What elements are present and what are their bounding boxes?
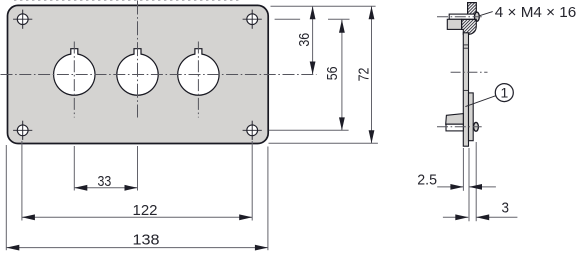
leader for screw label (479, 12, 493, 16)
extension line below right fixing holes (251, 141, 253, 221)
item balloon 1 leader (465, 96, 495, 107)
top screw centre line (437, 16, 482, 18)
dimension 36 line (310, 6, 316, 74)
svg-text:122: 122 (133, 202, 158, 219)
svg-text:72: 72 (355, 68, 372, 82)
vertical centre line hole 2 (137, 1, 139, 118)
dimension 72 line (369, 6, 375, 143)
joint lines on plate column (463, 44, 468, 46)
svg-text:3: 3 (502, 200, 510, 217)
top-left clamp block (447, 19, 461, 29)
top mounting bar (449, 14, 475, 19)
top screw end ellipse (475, 12, 480, 21)
svg-text:36: 36 (296, 33, 313, 47)
dimension 122 line (22, 214, 252, 220)
centre-line extension right of bottom-right fixing hole (269, 129, 349, 131)
bottom mounting bar (446, 124, 463, 131)
item balloon 1 (495, 84, 513, 102)
side view extension line C (boss rear) (475, 142, 477, 221)
top screw boss (sectioned) (462, 19, 477, 34)
operator hole 3 (with keyway notch) (178, 49, 219, 96)
side view extension line B (plate rear) (468, 148, 470, 221)
fixing hole bottom-left (13, 121, 32, 140)
svg-text:33: 33 (98, 173, 112, 190)
vertical centre line hole 1 (73, 42, 75, 118)
svg-text:1: 1 (501, 85, 509, 101)
extension line from plate top edge (271, 5, 376, 7)
horizontal centre line through operator holes (1, 74, 317, 76)
bottom screw end ellipse (474, 122, 479, 131)
svg-text:4 × M4 × 16: 4 × M4 × 16 (495, 5, 577, 21)
operator hole 1 (with keyway notch) (54, 49, 95, 96)
svg-text:2.5: 2.5 (417, 172, 437, 189)
mounting plate body (8, 5, 269, 143)
extension line below hole 1 (73, 146, 75, 191)
dimension 2.5 line (437, 184, 496, 190)
vertical centre line hole 3 (197, 42, 199, 118)
extension line from plate bottom edge (269, 142, 378, 144)
dimension 56 line (339, 20, 345, 131)
extension line below plate right edge (267, 147, 269, 251)
cropped dashed line at top edge (14, 0, 242, 1)
bottom clamp block (446, 114, 464, 125)
extension line below plate left edge (5, 145, 7, 250)
operator hole 2 (with keyway notch) (117, 49, 158, 96)
top M4 screw shank (sectioned) (468, 3, 477, 15)
fixing hole top-left (13, 10, 32, 29)
fixing hole bottom-right (243, 121, 262, 140)
svg-text:138: 138 (133, 231, 160, 248)
side view extension line A (plate front) (462, 148, 464, 191)
dimension 3 line (443, 214, 518, 220)
adapter column (edge view) (469, 93, 474, 141)
dimension 33 line (74, 185, 137, 191)
svg-text:56: 56 (324, 67, 341, 81)
bottom screw centre line (437, 126, 482, 128)
extension line below hole 2 (137, 146, 139, 191)
centre-line extension right of top-right fixing hole (275, 18, 301, 20)
dimension 138 line (6, 245, 268, 251)
middle centre line (451, 71, 488, 73)
front plate column (edge view) (463, 33, 468, 146)
extension line below left fixing holes (21, 141, 23, 221)
fixing hole top-right (243, 10, 262, 29)
